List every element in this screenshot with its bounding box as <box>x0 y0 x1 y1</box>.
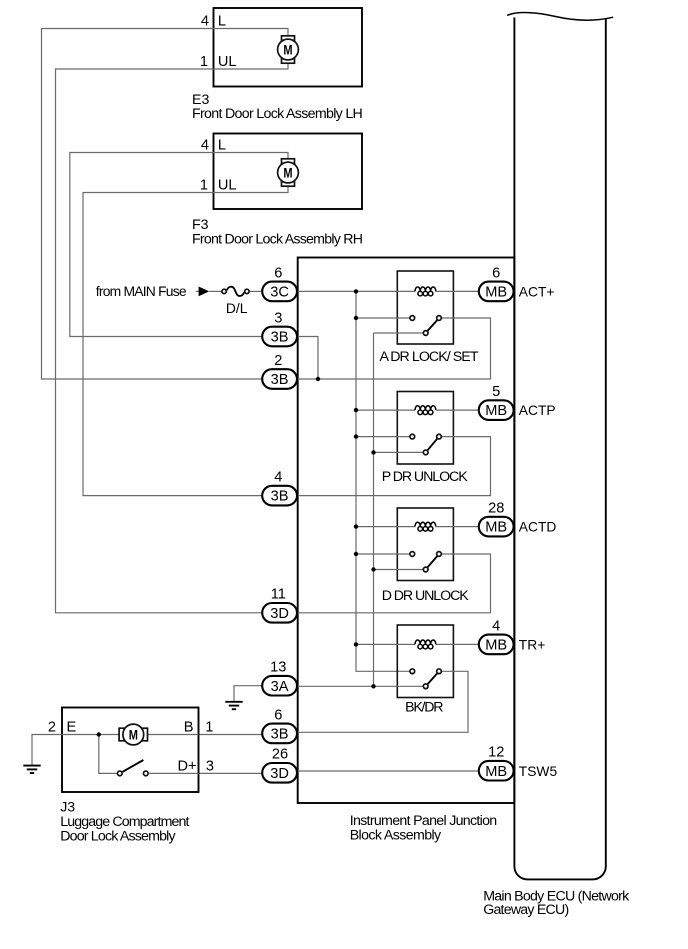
svg-text:1: 1 <box>205 720 213 736</box>
switch contacts P DR UNLOCK <box>410 434 415 439</box>
svg-text:MB: MB <box>485 520 507 536</box>
switch contacts BK/DR <box>410 669 415 674</box>
connector MB pin 4 (TR+) <box>479 635 514 655</box>
svg-text:3: 3 <box>274 310 282 326</box>
junction dot bus/coil <box>354 642 358 646</box>
junction dot bus/left contact <box>354 552 358 556</box>
svg-text:6: 6 <box>492 265 500 281</box>
component box F3 <box>214 134 363 210</box>
svg-text:BK/DR: BK/DR <box>405 699 443 715</box>
connector MB pin 6 (ACT+) <box>479 282 514 302</box>
junction dot common bus BK/DR <box>371 684 375 688</box>
svg-text:11: 11 <box>271 587 286 603</box>
svg-text:4: 4 <box>201 14 209 30</box>
wire J3 D+ to 3D pin26 <box>199 772 263 774</box>
svg-text:J3: J3 <box>60 800 75 816</box>
svg-text:TR+: TR+ <box>519 638 545 653</box>
wire common contact <box>374 332 423 334</box>
wire right contact loop A DR LOCK/ SET <box>318 318 491 379</box>
wire motor to B pin <box>145 734 199 736</box>
component box Instrument Panel Junction Block Assembly <box>298 258 515 804</box>
svg-text:2: 2 <box>274 353 282 369</box>
svg-text:ACTD: ACTD <box>519 520 557 535</box>
svg-text:5: 5 <box>492 384 500 400</box>
svg-text:3D: 3D <box>270 766 289 782</box>
wire bus to left contact <box>356 553 409 555</box>
svg-text:Gateway ECU): Gateway ECU) <box>483 902 569 918</box>
wire right contact loop BK/DR <box>297 671 468 732</box>
wire switch to D+ <box>149 772 199 774</box>
wire right contact loop P DR UNLOCK <box>297 437 491 496</box>
wire 3A to ground <box>234 686 262 702</box>
svg-text:4: 4 <box>274 470 282 486</box>
relay P DR UNLOCK box <box>397 392 453 465</box>
wire bus to left contact <box>356 436 409 438</box>
ground for J3 <box>23 765 40 767</box>
wire arrow to fuse <box>209 290 221 292</box>
switch arm A DR LOCK/ SET <box>428 320 438 331</box>
svg-text:from MAIN Fuse: from MAIN Fuse <box>96 283 187 299</box>
svg-text:L: L <box>218 138 226 154</box>
switch arm D DR UNLOCK <box>428 556 438 567</box>
connector 3B pin2 <box>262 369 297 389</box>
wire 3B pin2 to junction <box>297 378 318 380</box>
svg-text:13: 13 <box>270 660 286 676</box>
svg-text:Block Assembly: Block Assembly <box>350 828 442 844</box>
junction dot bus/coil <box>354 524 358 528</box>
svg-text:3B: 3B <box>271 372 289 388</box>
motor M (J3 luggage door lock motor) <box>119 728 124 741</box>
svg-text:3D: 3D <box>270 606 289 622</box>
wire F3 pin4 L to connector 3B pin3 <box>70 153 288 337</box>
svg-text:3C: 3C <box>270 285 289 301</box>
wire E3 pin4 L to connector 3B pin2 <box>42 29 289 380</box>
connector 3D pin26 <box>262 763 297 783</box>
wire right contact loop D DR UNLOCK <box>297 554 491 613</box>
wire 3B pin3 to junction <box>297 337 318 380</box>
svg-text:UL: UL <box>218 178 237 194</box>
svg-text:6: 6 <box>274 707 282 723</box>
component box E3 <box>214 8 363 87</box>
wire E3 pin1 UL to connector 3D pin11 <box>56 62 289 613</box>
svg-text:M: M <box>283 166 292 181</box>
svg-text:P DR UNLOCK: P DR UNLOCK <box>382 469 469 485</box>
wire J3 internal motor feed <box>62 734 122 736</box>
wire junction to switch <box>99 735 117 774</box>
connector MB pin 12 (TSW5) <box>479 761 514 781</box>
svg-text:28: 28 <box>488 501 504 517</box>
component Main Body ECU (Network Gateway ECU) <box>514 18 605 880</box>
motor M (F3 door lock motor) <box>282 159 295 164</box>
wire bus to left contact <box>356 317 409 319</box>
connector 3D pin11 <box>262 603 297 623</box>
svg-text:Instrument Panel Junction: Instrument Panel Junction <box>350 813 498 829</box>
junction dot bus/left contact <box>354 316 358 320</box>
wire +B bus from 3C <box>356 291 409 671</box>
arrow from MAIN fuse <box>196 290 199 292</box>
connector 3B pin3 <box>262 327 297 347</box>
wire coil feed BK/DR <box>356 643 415 645</box>
relay BK/DR box <box>397 625 453 698</box>
svg-text:MB: MB <box>485 403 507 419</box>
svg-text:ACTP: ACTP <box>519 403 556 418</box>
fuse D/L <box>222 289 226 293</box>
svg-text:M: M <box>129 728 138 743</box>
svg-text:4: 4 <box>492 618 500 634</box>
junction dot node 3B2/3B3 <box>316 377 320 381</box>
svg-text:3B: 3B <box>271 727 289 743</box>
switch J3 <box>117 771 122 776</box>
svg-text:D DR UNLOCK: D DR UNLOCK <box>382 588 470 604</box>
connector 3A pin13 <box>262 676 297 696</box>
wire coil feed D DR UNLOCK <box>356 526 415 528</box>
wire J3 pin2 E to ground <box>32 735 62 766</box>
svg-text:E: E <box>67 720 77 736</box>
junction dot bus/left contact <box>354 434 358 438</box>
relay coil D DR UNLOCK <box>415 522 436 531</box>
wire F3 pin1 UL to connector 3B pin4 <box>83 185 288 496</box>
connector MB pin 5 (ACTP) <box>479 400 514 420</box>
svg-text:A DR LOCK/ SET: A DR LOCK/ SET <box>380 349 479 365</box>
junction dot bus/coil <box>354 289 358 293</box>
relay coil BK/DR <box>415 640 436 649</box>
junction dot bus/coil <box>354 408 358 412</box>
relay coil P DR UNLOCK <box>415 406 436 415</box>
connector 3B pin4 <box>262 486 297 506</box>
wire coil to MB connector <box>436 290 479 292</box>
wire common contact <box>374 569 423 571</box>
svg-text:2: 2 <box>48 720 56 736</box>
svg-text:B: B <box>184 720 194 736</box>
wire J3 B to 3B pin6 <box>199 734 263 736</box>
junction dot common bus <box>371 450 375 454</box>
connector MB pin 28 (ACTD) <box>479 517 514 537</box>
svg-text:ACT+: ACT+ <box>519 285 555 300</box>
svg-text:4: 4 <box>201 138 209 154</box>
relay D DR UNLOCK box <box>397 508 453 581</box>
svg-text:1: 1 <box>200 54 208 70</box>
svg-text:3: 3 <box>206 758 214 774</box>
connector 3C pin6 <box>262 282 297 302</box>
ground for 3A <box>225 701 242 703</box>
relay coil A DR LOCK/ SET <box>415 287 436 296</box>
switch arm P DR UNLOCK <box>428 439 438 450</box>
svg-text:TSW5: TSW5 <box>519 764 558 779</box>
svg-text:3A: 3A <box>271 679 289 695</box>
wire coil to MB connector <box>436 526 479 528</box>
switch arm BK/DR <box>428 674 438 685</box>
wire relay common bus to 3A ground wire <box>373 333 375 686</box>
wire common contact <box>374 451 423 453</box>
wire common contact <box>297 685 423 687</box>
wire 3D pin26 to MB pin12 (TSW5) <box>297 770 479 772</box>
svg-text:L: L <box>218 14 226 30</box>
svg-text:MB: MB <box>485 764 507 780</box>
svg-text:MB: MB <box>485 638 507 654</box>
svg-text:26: 26 <box>272 747 288 763</box>
switch contacts D DR UNLOCK <box>410 552 415 557</box>
svg-text:Front Door Lock Assembly LH: Front Door Lock Assembly LH <box>192 106 363 122</box>
motor M (E3 door lock motor) <box>282 36 295 41</box>
svg-text:Front Door Lock Assembly RH: Front Door Lock Assembly RH <box>192 232 363 248</box>
svg-text:3B: 3B <box>271 489 289 505</box>
relay A DR LOCK/ SET box <box>397 271 453 344</box>
svg-text:D+: D+ <box>177 758 196 774</box>
wire coil to MB connector <box>436 643 479 645</box>
svg-text:D/L: D/L <box>226 300 248 316</box>
svg-text:M: M <box>283 43 292 58</box>
svg-text:UL: UL <box>218 54 237 70</box>
svg-text:6: 6 <box>274 265 282 281</box>
component box J3 <box>62 708 199 793</box>
svg-text:3B: 3B <box>271 330 289 346</box>
wire coil feed P DR UNLOCK <box>356 409 415 411</box>
wire coil feed A DR LOCK/ SET <box>297 290 415 292</box>
wire fuse to connector 3C <box>250 290 263 292</box>
svg-text:1: 1 <box>200 178 208 194</box>
junction dot common bus <box>371 567 375 571</box>
svg-text:12: 12 <box>488 745 504 761</box>
svg-text:MB: MB <box>485 285 507 301</box>
wire coil to MB connector <box>436 409 479 411</box>
junction dot J3 <box>97 732 101 736</box>
svg-text:Door Lock Assembly: Door Lock Assembly <box>60 829 176 845</box>
switch contacts A DR LOCK/ SET <box>410 316 415 321</box>
